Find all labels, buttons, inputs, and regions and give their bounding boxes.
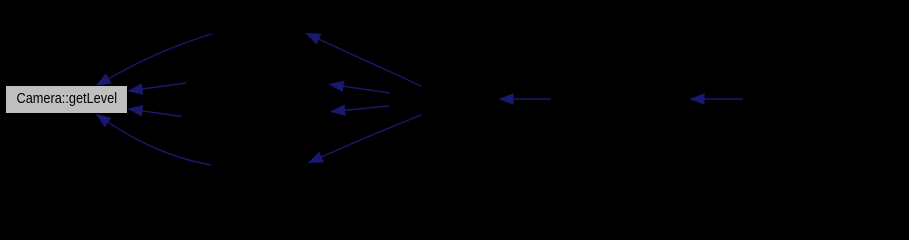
fan edge rank2 -> mid-lower node bbox=[331, 105, 389, 116]
fan edge rank2 -> top node bbox=[306, 33, 421, 86]
edge bottom node -> Camera::getLevel (curve) bbox=[97, 114, 212, 165]
node Camera::getLevel bbox=[6, 86, 128, 114]
fan edge rank2 -> mid-upper node bbox=[330, 81, 391, 93]
edge mid-upper node -> Camera::getLevel bbox=[128, 83, 186, 94]
fan edge rank2 -> bottom node bbox=[309, 115, 422, 163]
edge rank3 -> rank2 bbox=[499, 94, 551, 105]
svg-text:Camera::getLevel: Camera::getLevel bbox=[17, 89, 118, 106]
edge rank4 -> rank3 bbox=[690, 94, 743, 105]
edge top node -> Camera::getLevel (curve) bbox=[97, 34, 213, 86]
edge mid-lower node -> Camera::getLevel bbox=[128, 106, 181, 117]
